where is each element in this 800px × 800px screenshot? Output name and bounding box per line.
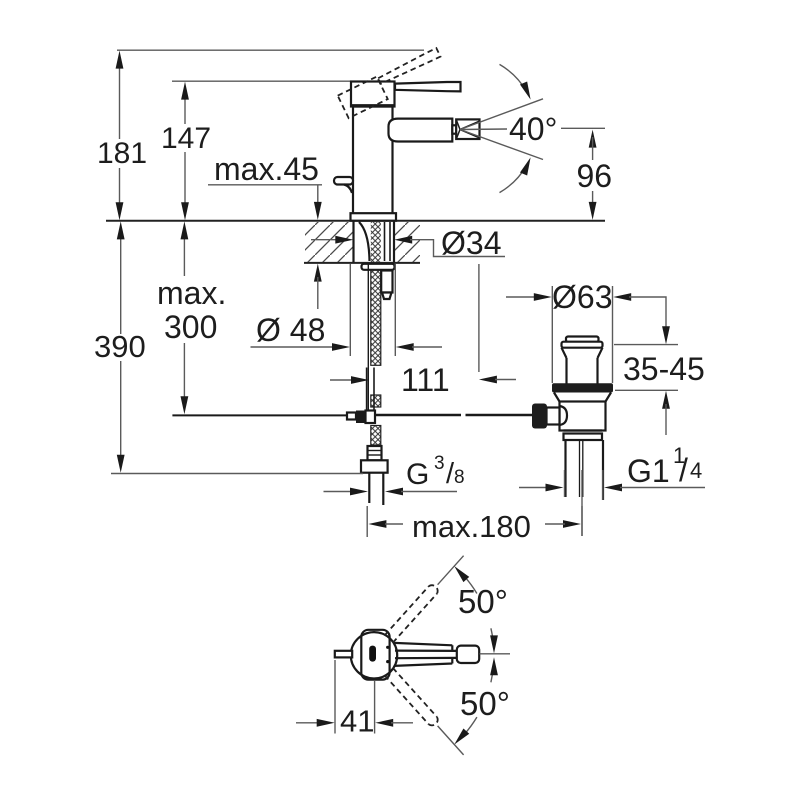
svg-text:Ø 48: Ø 48: [256, 312, 325, 348]
svg-text:300: 300: [164, 309, 217, 345]
svg-text:96: 96: [577, 158, 613, 194]
svg-text:4: 4: [690, 458, 702, 483]
svg-text:41: 41: [340, 704, 374, 739]
svg-text:390: 390: [94, 329, 146, 364]
svg-text:max.45: max.45: [214, 151, 319, 187]
svg-text:147: 147: [161, 122, 211, 155]
svg-text:35-45: 35-45: [623, 351, 705, 387]
svg-text:50°: 50°: [460, 685, 510, 722]
svg-text:max.180: max.180: [412, 509, 531, 544]
svg-text:181: 181: [97, 137, 147, 170]
svg-text:3: 3: [434, 453, 445, 474]
svg-text:G1: G1: [627, 453, 670, 489]
svg-text:50°: 50°: [458, 583, 508, 620]
svg-text:G: G: [406, 458, 429, 491]
svg-text:111: 111: [401, 362, 450, 398]
svg-text:max.: max.: [157, 275, 226, 311]
svg-text:40°: 40°: [509, 111, 557, 147]
svg-text:Ø63: Ø63: [552, 279, 612, 315]
svg-text:/: /: [679, 452, 688, 488]
svg-text:8: 8: [454, 467, 465, 488]
svg-text:Ø34: Ø34: [441, 225, 501, 261]
